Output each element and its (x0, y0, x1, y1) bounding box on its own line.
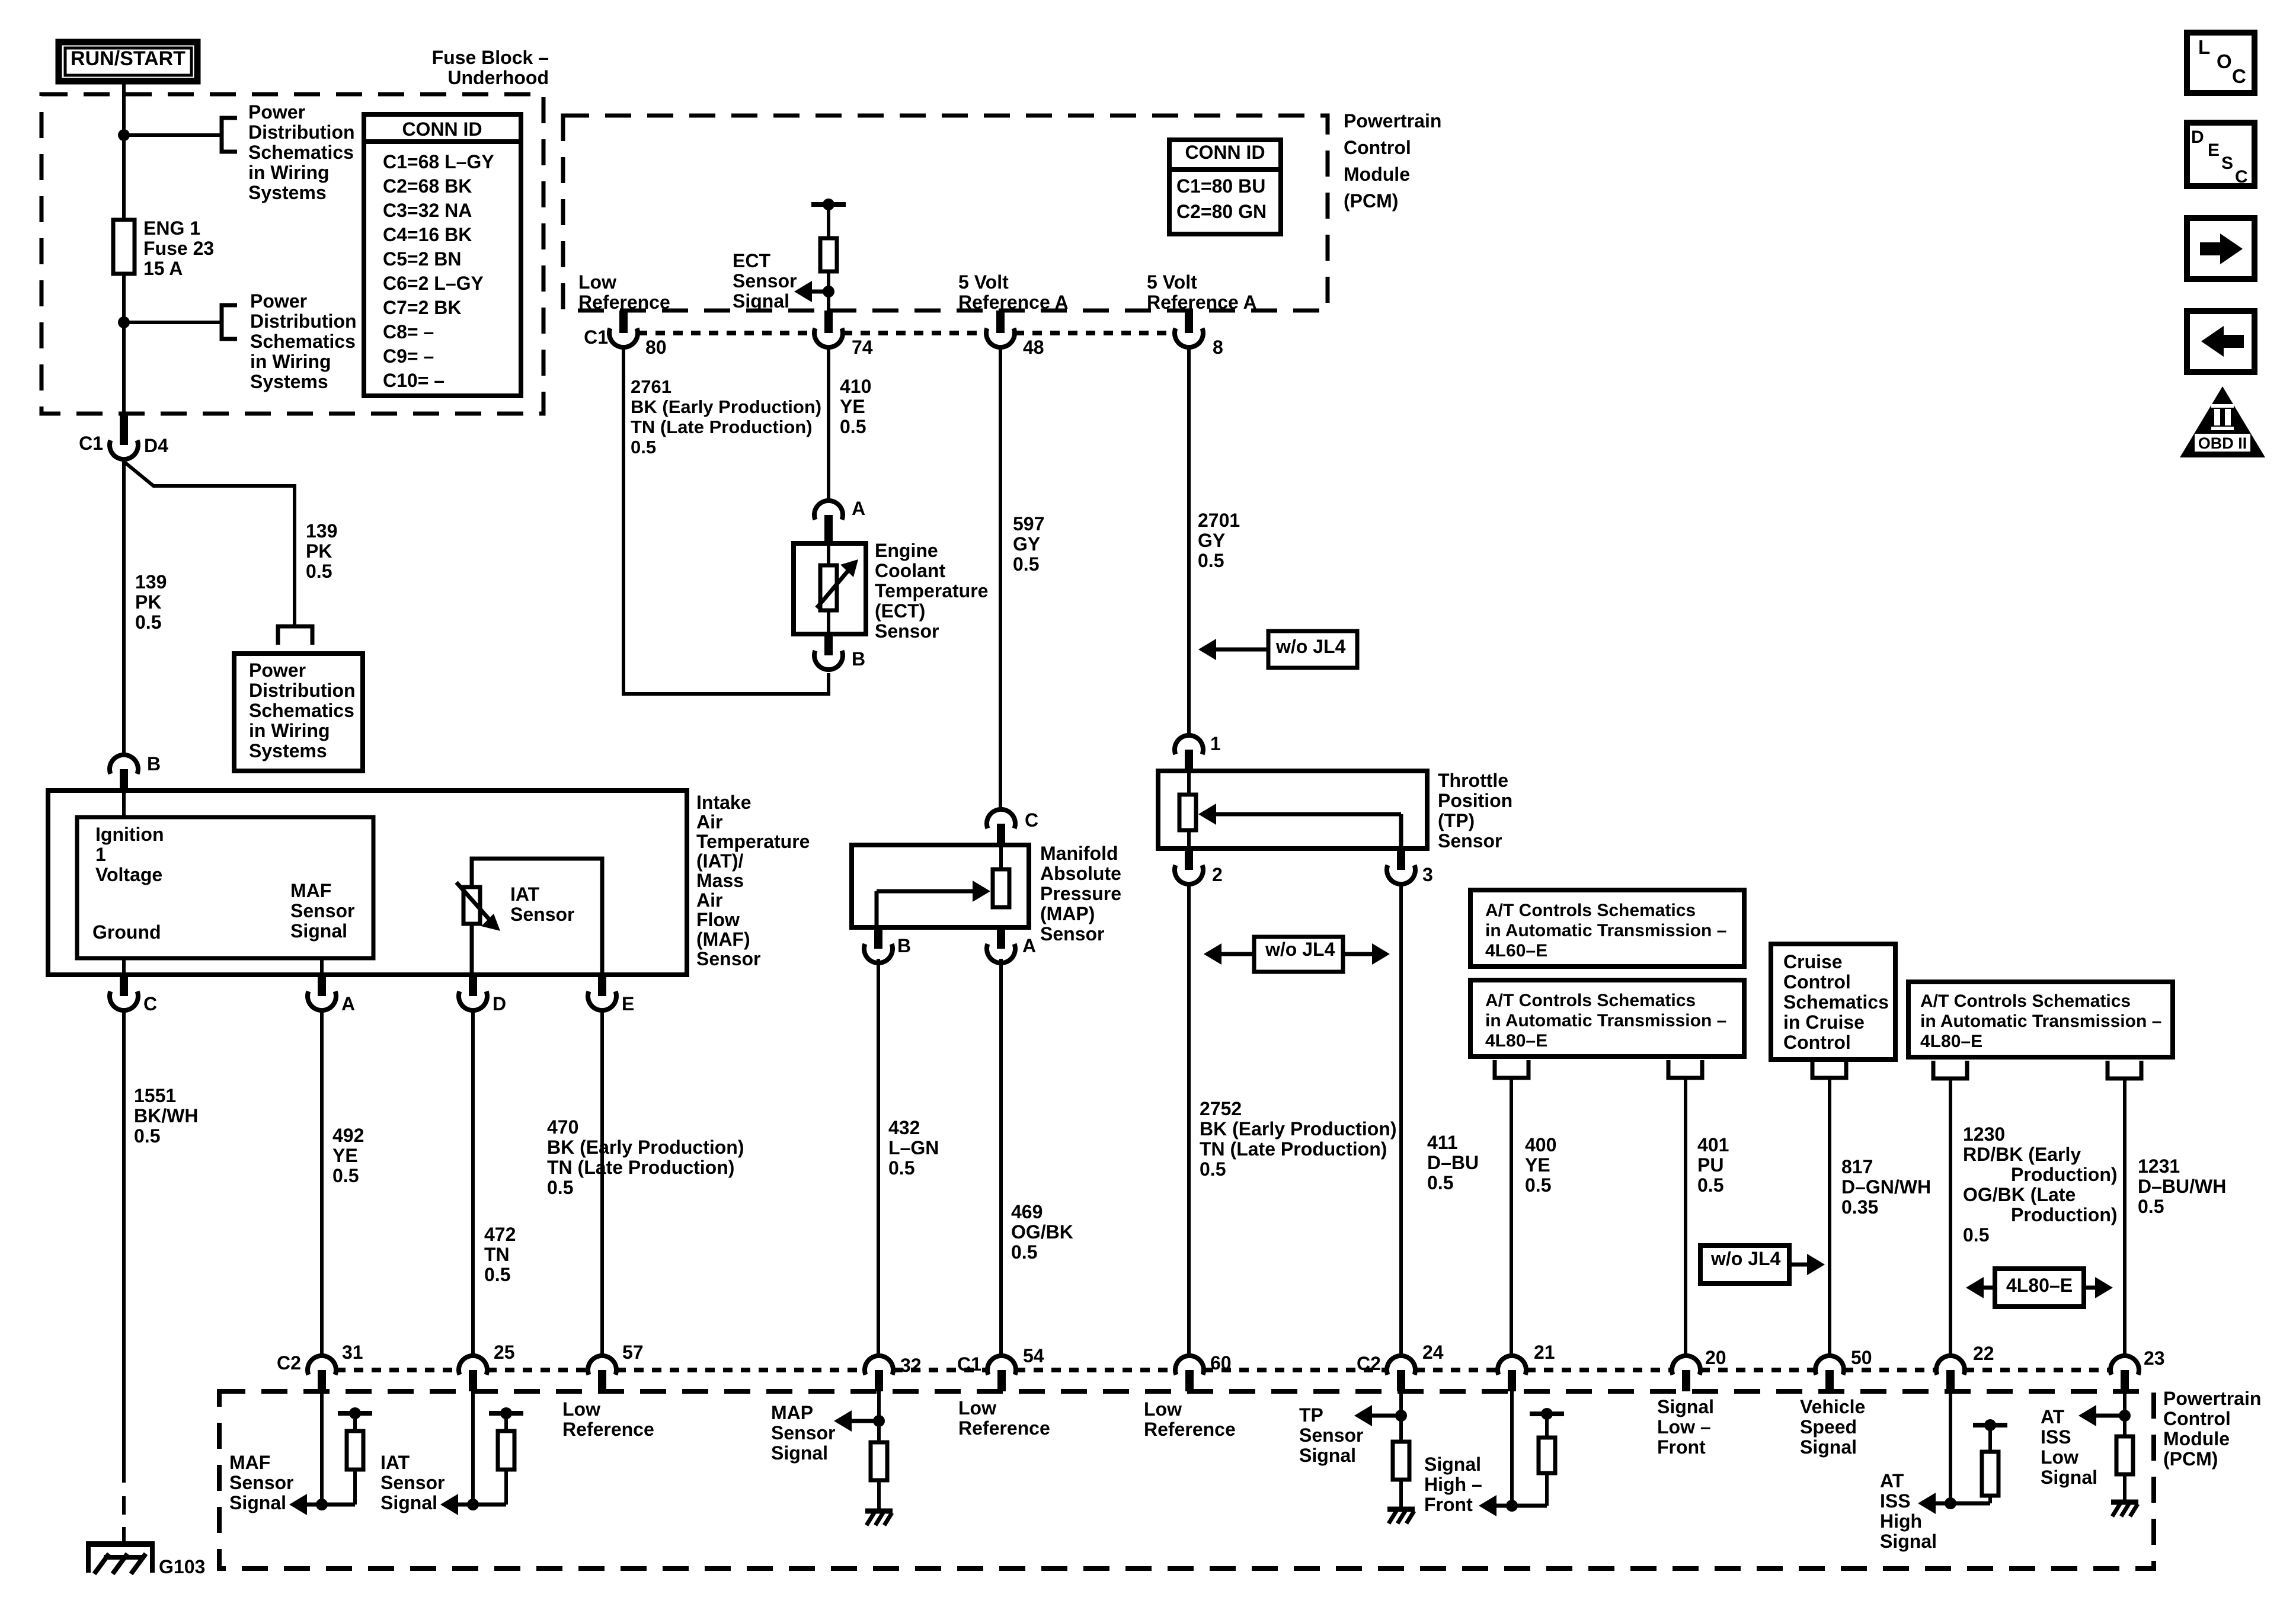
label 1551 BK/WH 0.5 (134, 1085, 198, 1147)
label 57 (622, 1342, 644, 1363)
wire RUN/START to fuse (122, 84, 126, 220)
switch RUN/START (ignition switch position label) (59, 42, 197, 81)
svg-text:Ground: Ground (92, 921, 161, 943)
wire junction to pullup resistor (IAT) (473, 1470, 506, 1505)
label Engine Coolant Temperature (ECT) Sensor (875, 540, 988, 642)
svg-text:1: 1 (95, 844, 106, 865)
svg-text:Voltage: Voltage (95, 864, 162, 885)
label C1 (pin row) (584, 327, 608, 348)
svg-text:BK (Early Production): BK (Early Production) (547, 1137, 744, 1158)
connector A (MAP) (987, 927, 1036, 963)
svg-text:Underhood: Underhood (447, 67, 549, 88)
label 20 (1705, 1347, 1726, 1368)
svg-text:(PCM): (PCM) (2163, 1448, 2218, 1470)
svg-text:Signal: Signal (2041, 1467, 2097, 1488)
svg-text:C3=32 NA: C3=32 NA (383, 200, 472, 221)
wire 472 TN (471, 1010, 475, 1356)
label Intake Air Temperature (IAT)/ Mass Air Flow (MAF) Sensor (696, 792, 810, 969)
svg-text:D4: D4 (144, 435, 168, 456)
conn id table (PCM) (1169, 140, 1281, 234)
label 492 YE 0.5 (332, 1125, 364, 1186)
svg-text:Sensor: Sensor (510, 904, 574, 925)
svg-text:C: C (1025, 809, 1038, 831)
wire ECT internal top (827, 543, 830, 565)
svg-text:Engine: Engine (875, 540, 938, 561)
label 1231 D-BU/WH 0.5 (2138, 1156, 2226, 1217)
label 2752 BK TN 0.5 (1200, 1098, 1396, 1180)
arrow ECT Sensor Signal (794, 281, 829, 302)
icon DESC (2187, 123, 2255, 187)
svg-text:410: 410 (840, 376, 871, 397)
pin 24 (bottom PCM) (1387, 1356, 1415, 1391)
svg-text:CONN ID: CONN ID (1185, 142, 1265, 163)
label Low Reference (pin 60) (1144, 1398, 1236, 1440)
svg-text:15 A: 15 A (143, 258, 183, 279)
svg-text:0.5: 0.5 (1200, 1158, 1226, 1180)
svg-text:Sensor: Sensor (1438, 830, 1502, 852)
wire to off-page connector 1 (124, 133, 220, 137)
wire ECT internal bottom (827, 610, 830, 634)
wire 492 YE (320, 1010, 324, 1356)
label Powertrain Control Module (PCM) bottom (2163, 1388, 2261, 1470)
wire 2701 GY (pin 8 down) (1187, 347, 1191, 735)
svg-text:PK: PK (135, 591, 161, 613)
svg-text:0.5: 0.5 (1427, 1172, 1453, 1193)
pin 23 (bottom PCM) (2110, 1356, 2139, 1391)
termination bar (22) (1973, 1419, 2007, 1431)
svg-text:C: C (2235, 167, 2248, 187)
svg-text:C1: C1 (957, 1353, 981, 1375)
svg-text:Signal: Signal (229, 1492, 286, 1513)
fuse ENG 1 Fuse 23 15 A (113, 220, 135, 274)
svg-text:Systems: Systems (250, 371, 328, 392)
svg-text:23: 23 (2144, 1347, 2165, 1369)
ground G103 (86, 1541, 155, 1574)
arrow MAP Sensor Signal (834, 1410, 879, 1432)
svg-text:Sensor: Sensor (380, 1472, 445, 1493)
wire 597 GY (pin 48 down) (999, 347, 1002, 809)
svg-text:Reference: Reference (958, 1417, 1050, 1439)
svg-text:139: 139 (135, 571, 167, 593)
svg-text:0.5: 0.5 (840, 416, 866, 437)
svg-text:C2=68 BK: C2=68 BK (383, 175, 472, 197)
svg-text:Low –: Low – (1657, 1416, 1711, 1438)
svg-text:C9= –: C9= – (383, 345, 434, 367)
pin 60 (bottom PCM) (1175, 1356, 1204, 1391)
icon LOC (2187, 33, 2255, 93)
arrow AT ISS Low Signal (2078, 1405, 2125, 1426)
pin 54 (bottom PCM) (987, 1356, 1016, 1391)
svg-text:(MAP): (MAP) (1040, 903, 1095, 924)
wire 1551 BK/WH (122, 1010, 126, 1541)
MAF sensor outer box (48, 790, 687, 975)
MAP sensor box (852, 845, 1029, 927)
junction signal high front (1506, 1500, 1518, 1512)
svg-text:Control: Control (1344, 137, 1411, 158)
svg-text:Signal: Signal (1880, 1531, 1937, 1552)
wire MAP internal (999, 845, 1003, 869)
svg-text:D: D (2191, 127, 2204, 147)
svg-text:Intake: Intake (696, 792, 751, 813)
svg-text:Absolute: Absolute (1040, 863, 1121, 884)
svg-text:Position: Position (1438, 790, 1512, 811)
svg-text:Fuse Block –: Fuse Block – (432, 47, 549, 68)
svg-text:D–GN/WH: D–GN/WH (1841, 1176, 1931, 1198)
svg-text:8: 8 (1213, 337, 1223, 358)
svg-text:OBD II: OBD II (2198, 434, 2247, 452)
svg-text:0.5: 0.5 (1525, 1174, 1551, 1196)
connector D (IAT) (459, 975, 506, 1014)
reference box A/T Controls Schematics 4L60-E (1470, 890, 1744, 966)
wire pin 31 to MAF signal junction (320, 1391, 324, 1505)
termination bar (21) (1530, 1408, 1564, 1420)
svg-text:57: 57 (622, 1342, 644, 1363)
label AT ISS Low Signal (2041, 1406, 2097, 1488)
svg-text:Front: Front (1424, 1494, 1473, 1515)
svg-text:0.5: 0.5 (135, 612, 161, 633)
wire TP internal top (1187, 771, 1191, 795)
label 472 TN 0.5 (484, 1224, 516, 1285)
svg-text:4L80–E: 4L80–E (2006, 1275, 2073, 1296)
svg-text:A/T Controls Schematics: A/T Controls Schematics (1485, 901, 1696, 920)
label AT ISS High Signal (1880, 1470, 1937, 1552)
wire 817 D-GN/WH (1828, 1078, 1831, 1356)
pin 20 (bottom PCM) (1672, 1356, 1700, 1391)
svg-text:C10= –: C10= – (383, 370, 445, 391)
label Low Reference (PCM top) (578, 271, 670, 313)
wire MAF signal to pin A (320, 958, 324, 975)
wire 400 YE (1510, 1078, 1513, 1356)
svg-text:Sensor: Sensor (875, 620, 939, 642)
reference flag w/o JL4 (right arrow) (1700, 1246, 1825, 1283)
label MAF Sensor Signal (inside box) (290, 880, 354, 942)
IAT sub-box (472, 859, 602, 975)
svg-text:Sensor: Sensor (696, 948, 760, 969)
svg-text:Schematics: Schematics (248, 142, 354, 163)
svg-text:High –: High – (1424, 1474, 1482, 1495)
pin 31 (bottom PCM) (308, 1356, 336, 1391)
wire tbar to resistor (827, 204, 830, 238)
dotted connector line C1 (PCM top) (638, 331, 1175, 335)
svg-text:GY: GY (1013, 533, 1040, 555)
svg-text:Systems: Systems (249, 740, 327, 761)
wire TP resistor to ground (1399, 1480, 1403, 1507)
svg-text:BK (Early Production): BK (Early Production) (631, 396, 821, 417)
TP sensor box (1158, 771, 1427, 849)
connector 2 (TP) (1175, 849, 1223, 885)
svg-text:C2: C2 (277, 1352, 301, 1374)
svg-text:Low: Low (2041, 1446, 2078, 1468)
resistor pin 22 pull-up (1982, 1452, 1998, 1496)
label IAT Sensor (510, 884, 574, 925)
label 31 (342, 1342, 363, 1363)
svg-text:0.5: 0.5 (1013, 553, 1039, 575)
connector 1 (TP) (1175, 733, 1221, 771)
reference box A/T Controls Schematics 4L80-E (right) (1908, 982, 2173, 1057)
junction AT ISS low (2119, 1410, 2131, 1422)
label 2761 BK TN 0.5 (631, 376, 821, 457)
label 8 (1213, 337, 1223, 358)
svg-text:MAP: MAP (771, 1402, 813, 1423)
svg-text:597: 597 (1013, 513, 1044, 534)
resistor MAF pull-up (347, 1431, 363, 1470)
svg-text:D: D (493, 993, 506, 1014)
svg-text:D–BU/WH: D–BU/WH (2138, 1176, 2226, 1197)
svg-text:0.5: 0.5 (2138, 1196, 2164, 1217)
wire B pin into inner box (122, 790, 126, 817)
svg-text:in Cruise: in Cruise (1783, 1012, 1865, 1033)
wire to off-page connector 2 (124, 321, 220, 324)
svg-text:Power: Power (250, 290, 307, 312)
resistor pin 21 pull-up (1539, 1438, 1555, 1473)
label Low Reference (pin 57) (562, 1398, 654, 1440)
pin 50 (bottom PCM) (1815, 1356, 1844, 1391)
svg-text:Signal: Signal (733, 290, 789, 312)
svg-text:Signal: Signal (1299, 1445, 1356, 1466)
svg-text:400: 400 (1525, 1134, 1556, 1156)
pin 32 (bottom PCM) (865, 1356, 893, 1391)
svg-text:in Automatic Transmission –: in Automatic Transmission – (1485, 1011, 1726, 1030)
svg-text:22: 22 (1973, 1343, 1994, 1364)
wire fuse to connector C1 D4 (122, 274, 126, 414)
svg-text:in Automatic Transmission –: in Automatic Transmission – (1485, 921, 1726, 940)
svg-text:24: 24 (1422, 1342, 1444, 1363)
svg-text:Low: Low (1144, 1398, 1182, 1420)
svg-text:L–GN: L–GN (888, 1137, 939, 1158)
reference flag w/o JL4 (double arrow) (1204, 937, 1390, 972)
svg-text:Distribution: Distribution (249, 680, 356, 701)
icon OBD II triangle (2180, 386, 2265, 457)
svg-text:w/o JL4: w/o JL4 (1275, 636, 1346, 657)
wire ISS resistor to ground (2123, 1474, 2126, 1500)
resistor MAP load (871, 1442, 887, 1480)
svg-text:0.5: 0.5 (1011, 1241, 1037, 1263)
svg-text:IAT: IAT (380, 1452, 410, 1473)
svg-text:(ECT): (ECT) (875, 600, 925, 622)
off-page bracket above power dist box (278, 626, 312, 645)
svg-text:80: 80 (645, 337, 667, 358)
svg-text:Systems: Systems (248, 182, 327, 203)
svg-text:(MAF): (MAF) (696, 929, 750, 950)
label 400 YE 0.5 (1525, 1134, 1556, 1196)
label Power Distribution Schematics in Wiring Systems (middle) (250, 290, 357, 392)
label 401 PU 0.5 (1697, 1134, 1729, 1196)
label 469 OG/BK 0.5 (1011, 1201, 1073, 1263)
connector A (ECT) (814, 498, 865, 543)
wire resistor to termination (IAT) (504, 1413, 508, 1431)
svg-text:PK: PK (306, 540, 332, 562)
arrow MAF Sensor Signal (289, 1494, 322, 1515)
connector B (MAP) (864, 927, 911, 963)
svg-text:Front: Front (1657, 1436, 1706, 1458)
resistor IAT pull-up (498, 1431, 514, 1470)
pin 21 (bottom PCM) (1498, 1356, 1526, 1391)
svg-text:C2=80 GN: C2=80 GN (1176, 201, 1267, 222)
label 24 (1422, 1342, 1444, 1363)
svg-text:in Wiring: in Wiring (250, 351, 331, 372)
svg-text:Signal: Signal (1657, 1396, 1714, 1417)
svg-text:Low: Low (562, 1398, 600, 1420)
resistor TP load (1393, 1442, 1409, 1480)
svg-text:A: A (1022, 935, 1036, 956)
wire 401 PU (1684, 1078, 1687, 1356)
svg-text:RUN/START: RUN/START (71, 47, 186, 70)
termination bar (IAT pull-up) (489, 1407, 523, 1419)
label 817 D-GN/WH 0.35 (1841, 1156, 1931, 1218)
label 5 Volt Reference A (second) (1147, 271, 1257, 313)
off-page connector symbol 1 (222, 118, 237, 152)
svg-text:1231: 1231 (2138, 1156, 2180, 1177)
svg-text:817: 817 (1841, 1156, 1873, 1177)
svg-text:Signal: Signal (1800, 1436, 1857, 1458)
svg-text:Low: Low (958, 1397, 996, 1419)
label 1230 RD/BK OG/BK 0.5 (1963, 1124, 2118, 1246)
svg-text:0.5: 0.5 (306, 561, 332, 582)
svg-text:0.5: 0.5 (631, 437, 656, 457)
svg-text:Module: Module (1344, 164, 1410, 185)
svg-text:BK (Early Production): BK (Early Production) (1200, 1118, 1396, 1140)
label 5 Volt Reference A (first) (958, 271, 1069, 313)
pin 25 (bottom PCM) (459, 1356, 487, 1391)
label 432 L-GN 0.5 (888, 1117, 939, 1179)
svg-text:TN (Late Production): TN (Late Production) (631, 417, 813, 437)
svg-text:C: C (2232, 65, 2246, 87)
svg-text:2752: 2752 (1200, 1098, 1242, 1119)
resistor ECT pull-up (inside PCM) (820, 238, 837, 271)
svg-text:50: 50 (1851, 1347, 1872, 1368)
wire 2761 (pin 80 down) (622, 347, 625, 694)
bracket below 4L80-E box (left) (1668, 1060, 1702, 1078)
svg-text:Sensor: Sensor (229, 1472, 293, 1493)
wire pin 25 to IAT signal junction (471, 1391, 475, 1505)
svg-text:Signal: Signal (1424, 1454, 1481, 1475)
label Signal Low - Front (1657, 1396, 1714, 1458)
svg-text:1551: 1551 (134, 1085, 176, 1106)
svg-text:C4=16 BK: C4=16 BK (383, 224, 472, 245)
PCM dashed enclosure (bottom) (219, 1391, 2154, 1569)
label C1 (79, 433, 103, 454)
label 48 (1023, 337, 1044, 358)
label 50 (1851, 1347, 1872, 1368)
svg-text:Control: Control (1783, 971, 1851, 993)
svg-text:Power: Power (249, 660, 306, 681)
label D4 (144, 435, 168, 456)
svg-text:21: 21 (1534, 1342, 1555, 1363)
svg-text:C7=2 BK: C7=2 BK (383, 297, 462, 318)
wire pin 22 to ISS junction (1949, 1391, 1952, 1503)
svg-text:B: B (147, 753, 161, 774)
svg-text:Schematics: Schematics (250, 331, 356, 352)
svg-text:B: B (897, 935, 911, 956)
pin 22 (bottom PCM) (1936, 1356, 1965, 1391)
label ECT Sensor Signal (733, 250, 797, 312)
label Low Reference (pin 54) (958, 1397, 1050, 1439)
wire resistor to termination (21) (1545, 1414, 1549, 1438)
svg-text:139: 139 (306, 520, 337, 542)
label 32 (900, 1355, 922, 1376)
resistor ISS low load (2116, 1436, 2133, 1474)
svg-text:TN (Late Production): TN (Late Production) (547, 1157, 734, 1178)
junction IAT signal (467, 1499, 479, 1510)
svg-text:Sensor: Sensor (290, 900, 354, 921)
svg-text:C1: C1 (79, 433, 103, 454)
svg-text:Schematics: Schematics (1783, 991, 1889, 1013)
svg-text:5 Volt: 5 Volt (1147, 271, 1197, 293)
label Ground (92, 921, 161, 943)
arrow TP wiper (1198, 804, 1401, 849)
svg-text:C6=2 L–GY: C6=2 L–GY (383, 273, 484, 294)
wire MAP resistor to ground (877, 1480, 881, 1509)
svg-text:469: 469 (1011, 1201, 1043, 1222)
svg-text:Flow: Flow (696, 909, 740, 930)
svg-text:Temperature: Temperature (875, 580, 988, 601)
connector E (IAT) (588, 975, 634, 1014)
svg-text:1230: 1230 (1963, 1124, 2005, 1145)
svg-text:48: 48 (1023, 337, 1044, 358)
label 411 D-BU 0.5 (1427, 1132, 1479, 1193)
resistor TP element (1179, 795, 1196, 830)
wire 470 BK/TN (600, 1010, 604, 1356)
svg-text:C1=80 BU: C1=80 BU (1176, 175, 1265, 197)
svg-text:Speed: Speed (1800, 1416, 1857, 1438)
ECT sensor box (794, 543, 866, 634)
label C2 (pin 24 row) (1357, 1353, 1381, 1374)
pin 80 (609, 311, 638, 347)
label 139 PK 0.5 (left) (135, 571, 167, 633)
svg-text:in Automatic Transmission –: in Automatic Transmission – (1920, 1012, 2161, 1031)
svg-text:Sensor: Sensor (733, 270, 797, 292)
label 21 (1534, 1342, 1555, 1363)
svg-text:ECT: ECT (733, 250, 770, 271)
wire resistor to termination (MAF) (353, 1413, 357, 1431)
connector 3 (TP) (1387, 849, 1433, 885)
reference box Cruise Control Schematics in Cruise Control (1771, 944, 1895, 1060)
ground (ISS low load) (2111, 1502, 2138, 1516)
label Vehicle Speed Signal (1800, 1396, 1865, 1458)
svg-text:Reference: Reference (578, 292, 670, 313)
svg-text:0.35: 0.35 (1841, 1196, 1878, 1218)
connector B (MAF sensor) (110, 755, 138, 790)
wire 410 YE (pin 74 down) (827, 347, 830, 501)
svg-text:AT: AT (1880, 1470, 1904, 1491)
junction node (lower) (118, 316, 130, 328)
svg-text:CONN ID: CONN ID (402, 119, 482, 140)
label 597 GY 0.5 (1013, 513, 1044, 575)
svg-text:A/T Controls Schematics: A/T Controls Schematics (1920, 991, 2131, 1011)
svg-text:4L80–E: 4L80–E (1920, 1032, 1982, 1051)
svg-text:C: C (143, 993, 157, 1014)
svg-text:0.5: 0.5 (484, 1264, 510, 1285)
svg-text:Mass: Mass (696, 870, 744, 891)
svg-text:0.5: 0.5 (547, 1177, 573, 1198)
ground (TP load) (1387, 1509, 1415, 1523)
label ENG 1 Fuse 23 15 A (143, 217, 214, 279)
svg-text:0.5: 0.5 (134, 1125, 160, 1147)
label TP Sensor Signal (1299, 1404, 1363, 1466)
svg-text:in Wiring: in Wiring (249, 720, 330, 741)
svg-text:ISS: ISS (2041, 1426, 2071, 1448)
svg-text:25: 25 (494, 1342, 515, 1363)
svg-text:IAT: IAT (510, 884, 540, 905)
svg-text:20: 20 (1705, 1347, 1726, 1368)
svg-text:C1=68 L–GY: C1=68 L–GY (383, 151, 494, 172)
svg-text:Distribution: Distribution (248, 121, 355, 143)
label Powertrain Control Module (PCM) top (1344, 110, 1441, 212)
PCM dashed enclosure (top) (563, 116, 1328, 311)
svg-text:w/o JL4: w/o JL4 (1265, 939, 1335, 960)
svg-text:Low: Low (578, 271, 616, 293)
svg-text:4L80–E: 4L80–E (1485, 1031, 1547, 1051)
